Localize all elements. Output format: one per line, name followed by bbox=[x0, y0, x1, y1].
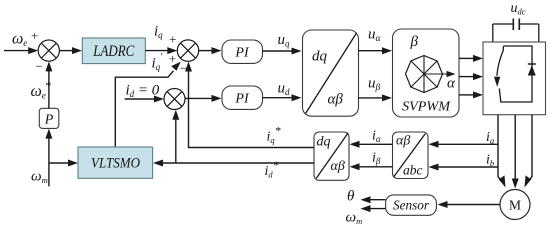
summing junction S1 bbox=[177, 40, 198, 61]
svg-text:αβ: αβ bbox=[328, 92, 344, 108]
block Sensor bbox=[386, 195, 437, 215]
wire S0 to LADRC bbox=[59, 47, 82, 54]
svg-text:β: β bbox=[410, 34, 419, 50]
wire S2 to PI2 bbox=[185, 95, 222, 102]
svg-text:+: + bbox=[169, 51, 176, 66]
wire PI1 to dq block bbox=[263, 48, 302, 55]
wire i_d* feedback to VLTSMO bbox=[153, 160, 314, 167]
wire i_alpha bbox=[350, 141, 393, 148]
motor M bbox=[500, 190, 530, 220]
wire i_beta bbox=[350, 163, 393, 170]
wire omega_m output bbox=[361, 205, 386, 212]
block inverter bbox=[483, 42, 546, 115]
svg-text:α: α bbox=[447, 76, 456, 92]
svg-text:Sensor: Sensor bbox=[393, 198, 430, 213]
summing junction S2 bbox=[164, 89, 185, 110]
wire omega_m feedback vertical bbox=[45, 129, 52, 187]
svg-text:PI: PI bbox=[234, 91, 250, 106]
wire SVPWM to inverter phase b bbox=[459, 73, 483, 80]
block alphabeta/abc transform bbox=[393, 132, 429, 179]
block PI2 bbox=[222, 86, 263, 109]
wire SVPWM to inverter phase c bbox=[459, 91, 483, 98]
transistor switch Q bbox=[494, 46, 504, 87]
wire i_a from leg a bbox=[429, 141, 499, 148]
svg-text:θ: θ bbox=[347, 188, 355, 204]
svg-text:M: M bbox=[509, 198, 521, 213]
svg-text:αβ: αβ bbox=[331, 159, 345, 174]
wire SVPWM to inverter phase a bbox=[459, 55, 483, 62]
wire iq' from VLTSMO to S1 bbox=[115, 62, 181, 147]
svg-text:dq: dq bbox=[317, 135, 331, 150]
svg-text:LADRC: LADRC bbox=[92, 43, 134, 60]
svg-text:abc: abc bbox=[403, 163, 423, 178]
wire omega_m branch to VLTSMO bbox=[49, 160, 78, 167]
wire LADRC to summing junction S1 bbox=[145, 47, 177, 54]
block P pole pairs bbox=[39, 108, 59, 128]
wire motor to sensor bbox=[438, 201, 501, 208]
wire u_beta bbox=[359, 94, 393, 101]
wire id=0 input to S2 bbox=[125, 96, 164, 103]
wire inverter leg a to motor bbox=[498, 115, 506, 188]
svg-text:dq: dq bbox=[312, 49, 328, 65]
svg-text:αβ: αβ bbox=[396, 133, 410, 148]
wire inverter leg c to motor bbox=[525, 115, 533, 188]
wire i_q* feedback to S1 bbox=[185, 62, 314, 148]
svg-text:P: P bbox=[44, 112, 54, 127]
wire omega_e input bbox=[4, 47, 38, 54]
inverter inner loop wire bbox=[499, 46, 532, 102]
wire i_b from leg a bbox=[429, 164, 499, 171]
wire i_d* branch up to S2 bbox=[172, 110, 179, 163]
svg-text:VLTSMO: VLTSMO bbox=[91, 156, 140, 172]
capacitor u_dc bbox=[493, 19, 539, 43]
svg-text:+: + bbox=[31, 28, 38, 43]
block dq/alphabeta feedback transform bbox=[314, 132, 349, 180]
diode D bbox=[528, 64, 536, 76]
svg-text:PI: PI bbox=[234, 45, 250, 60]
hexagon voltage vectors bbox=[406, 56, 456, 93]
block dq/alphabeta forward transform bbox=[303, 30, 359, 116]
wire S1 to PI1 bbox=[199, 47, 222, 54]
block PI1 bbox=[222, 40, 263, 63]
wire inverter leg b to motor bbox=[512, 115, 519, 189]
block VLTSMO bbox=[78, 147, 153, 178]
svg-text:SVPWM: SVPWM bbox=[402, 99, 451, 114]
block LADRC bbox=[82, 38, 145, 64]
block SVPWM bbox=[393, 29, 460, 117]
svg-text:−: − bbox=[180, 61, 187, 76]
wire u_alpha bbox=[359, 47, 393, 54]
wire PI2 to dq block bbox=[263, 94, 302, 101]
svg-text:+: + bbox=[169, 32, 176, 47]
svg-text:−: − bbox=[35, 59, 42, 74]
wire theta output bbox=[361, 196, 386, 203]
wire P to S0 bbox=[45, 61, 52, 108]
summing junction S0 bbox=[38, 40, 59, 61]
